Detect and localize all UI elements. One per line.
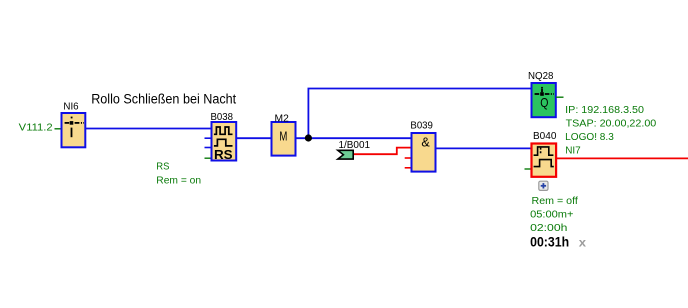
node junction dot <box>305 134 312 141</box>
svg-text:RS: RS <box>156 161 169 172</box>
block NI6 input symbol <box>65 123 84 137</box>
wire B039 to B040 <box>436 147 532 149</box>
svg-text:M2: M2 <box>275 113 290 124</box>
svg-text:B038: B038 <box>211 112 234 123</box>
block B038 body <box>212 122 237 161</box>
block B039 body <box>412 133 436 172</box>
wire B038 to M2 <box>236 137 272 139</box>
node V111.2 green stub <box>55 128 62 130</box>
block M2 body <box>272 122 296 156</box>
wire red B040 output <box>556 157 688 159</box>
block NQ28 output symbol <box>535 89 554 94</box>
block B038 double pulse symbol <box>214 127 233 134</box>
wire NI6 to B038 <box>85 128 211 130</box>
svg-text:Rollo Schließen bei Nacht: Rollo Schließen bei Nacht <box>91 91 236 106</box>
wire red connector 1/B001 to B039 pin2 <box>354 148 412 155</box>
wire M2 to B039 <box>295 137 412 139</box>
wire junction riser <box>308 89 531 139</box>
svg-text:Rem = off: Rem = off <box>532 196 579 207</box>
svg-text:05:00m+: 05:00m+ <box>530 209 574 220</box>
svg-text:B039: B039 <box>410 120 433 131</box>
block B038 single pulse symbol <box>214 139 233 146</box>
svg-text:1/B001: 1/B001 <box>339 140 371 151</box>
svg-text:LOGO! 8.3: LOGO! 8.3 <box>565 132 614 143</box>
block B039 stub pin3 red <box>405 157 412 159</box>
connector 1/B001 flag <box>338 150 353 159</box>
block NI6 body <box>62 113 86 147</box>
block NQ28 body <box>532 83 556 117</box>
expand button <box>539 181 548 190</box>
node NQ28 green stub <box>556 96 564 98</box>
svg-text:TSAP: 20.00,22.00: TSAP: 20.00,22.00 <box>566 119 657 130</box>
svg-text:NI6: NI6 <box>63 101 79 112</box>
svg-text:Q: Q <box>540 96 548 110</box>
svg-text:&: & <box>421 136 430 150</box>
node B040 green stub <box>525 168 532 170</box>
block B040 bottom pulse symbol <box>534 160 554 167</box>
svg-text:RS: RS <box>214 147 233 162</box>
block B038 stub pin2 <box>205 137 212 139</box>
svg-text:Rem = on: Rem = on <box>156 175 201 186</box>
block B040 body <box>532 144 557 177</box>
svg-text:B040: B040 <box>533 131 557 142</box>
block B039 stub pin4 red <box>405 167 412 169</box>
svg-text:x: x <box>579 235 587 249</box>
block B038 stub pin3 <box>205 147 212 149</box>
svg-text:M: M <box>279 129 287 143</box>
block B040 top pulse symbol <box>534 147 554 155</box>
svg-text:00:31h: 00:31h <box>530 234 569 249</box>
svg-text:NQ28: NQ28 <box>528 71 554 82</box>
svg-text:IP: 192.168.3.50: IP: 192.168.3.50 <box>565 105 644 116</box>
block B038 stub pin4 green <box>205 157 212 159</box>
svg-text:V111.2: V111.2 <box>19 122 53 134</box>
svg-text:NI7: NI7 <box>565 146 581 157</box>
svg-text:02:00h: 02:00h <box>530 223 567 234</box>
